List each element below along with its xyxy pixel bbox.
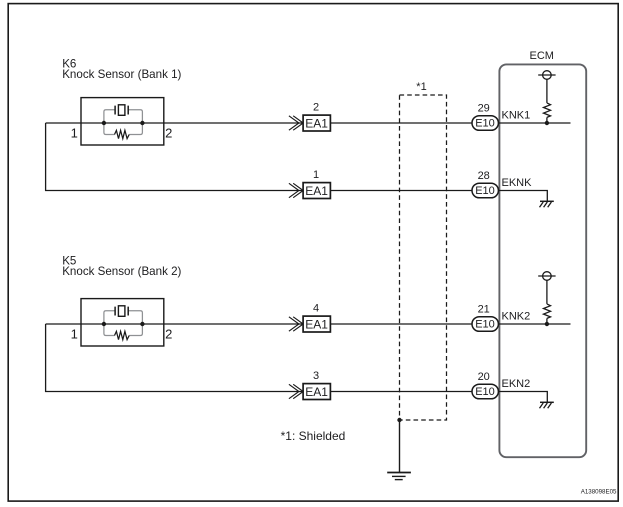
svg-text:2: 2 [165,125,172,140]
svg-text:29: 29 [478,103,490,115]
svg-text:*1: *1 [416,81,426,93]
svg-text:4: 4 [313,303,319,315]
svg-text:ECM: ECM [530,50,554,62]
svg-text:E10: E10 [475,386,495,398]
svg-text:2: 2 [165,326,172,341]
svg-text:1: 1 [71,326,78,341]
svg-text:1: 1 [313,169,319,181]
svg-text:EKN2: EKN2 [502,378,531,390]
svg-text:21: 21 [478,304,490,316]
svg-text:KNK2: KNK2 [502,310,531,322]
svg-text:EA1: EA1 [305,318,328,332]
svg-text:1: 1 [71,125,78,140]
svg-text:*1: Shielded: *1: Shielded [281,429,346,443]
svg-text:E10: E10 [475,319,495,331]
svg-text:A138098E05: A138098E05 [581,489,617,496]
svg-text:Knock Sensor (Bank 1): Knock Sensor (Bank 1) [62,68,181,81]
svg-text:28: 28 [478,170,490,182]
svg-text:3: 3 [313,370,319,382]
svg-text:E10: E10 [475,185,495,197]
svg-text:EA1: EA1 [305,184,328,198]
svg-text:2: 2 [313,102,319,114]
svg-text:E10: E10 [475,118,495,130]
svg-text:KNK1: KNK1 [502,109,531,121]
svg-text:EA1: EA1 [305,385,328,399]
svg-text:EKNK: EKNK [502,177,533,189]
svg-text:Knock Sensor (Bank 2): Knock Sensor (Bank 2) [62,265,181,278]
svg-text:EA1: EA1 [305,117,328,131]
svg-text:20: 20 [478,371,490,383]
